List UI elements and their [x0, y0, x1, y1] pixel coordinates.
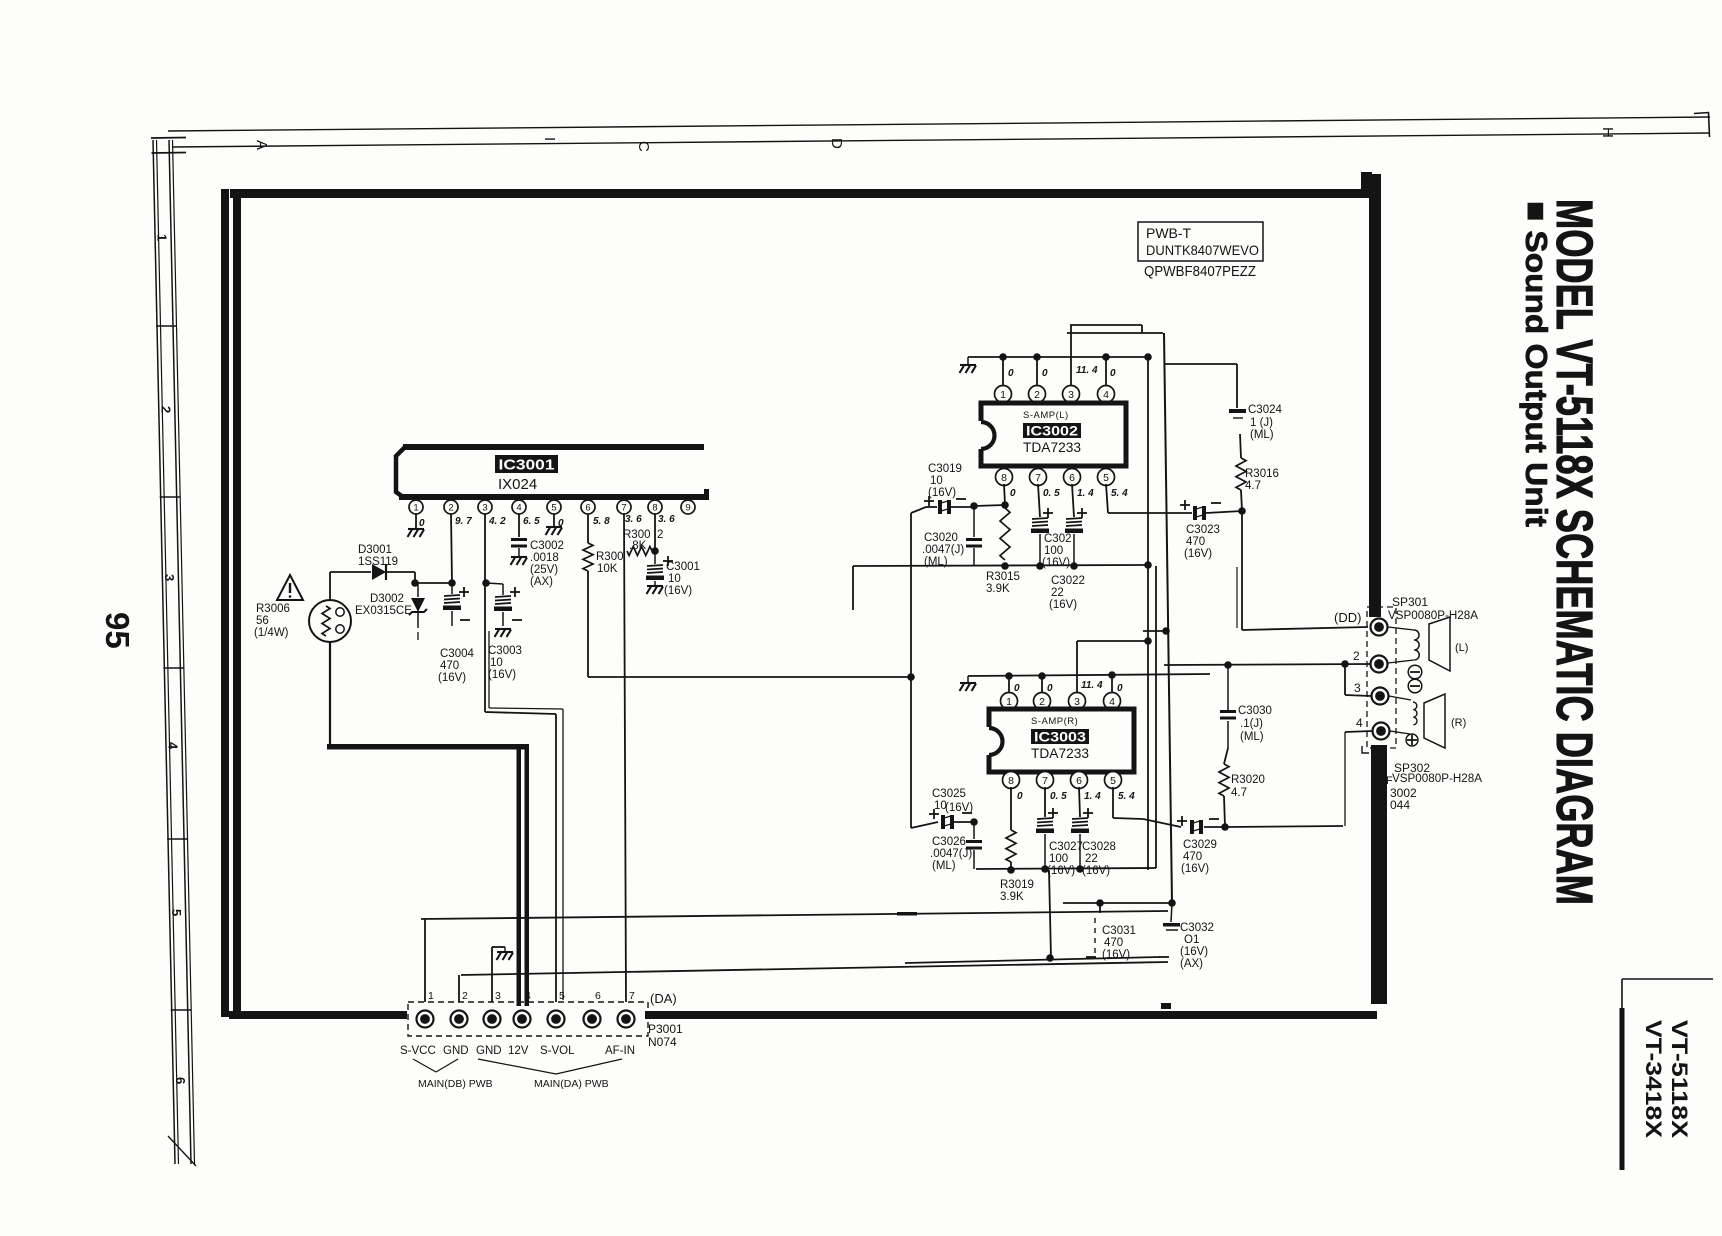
svg-text:C3002: C3002	[530, 540, 564, 552]
wire: IC3003 pin5 output	[1112, 787, 1114, 818]
svg-text:C3029: C3029	[1183, 839, 1217, 851]
IC3002 pin 8	[996, 469, 1013, 486]
svg-text:4: 4	[1103, 389, 1109, 401]
svg-text:5. 8: 5. 8	[593, 516, 610, 527]
svg-text:10: 10	[490, 657, 503, 669]
svg-text:C3032: C3032	[1180, 922, 1214, 934]
schematic frame: bottom edge left part	[229, 1011, 407, 1019]
svg-text:1SS119: 1SS119	[358, 556, 398, 568]
svg-text:SP301: SP301	[1392, 595, 1428, 609]
wire: IC3001 pin7 down to connector pin7 (AF-IN)	[624, 514, 626, 1002]
svg-text:6: 6	[585, 502, 590, 513]
svg-text:H: H	[1599, 127, 1616, 138]
svg-text:470: 470	[1104, 937, 1123, 949]
IC3001 label	[495, 455, 558, 473]
wire: R3006 top to D3001	[329, 572, 331, 600]
svg-text:VT-5118X: VT-5118X	[1667, 1020, 1692, 1138]
svg-text:C3027: C3027	[1049, 841, 1083, 853]
svg-text:1: 1	[413, 502, 418, 513]
svg-text:0: 0	[1110, 368, 1116, 379]
svg-text:I: I	[541, 137, 558, 141]
svg-text:R3006: R3006	[256, 603, 290, 615]
svg-text:2: 2	[1353, 649, 1360, 663]
capacitor C3032	[1171, 903, 1172, 922]
svg-text:3: 3	[495, 990, 501, 1002]
IC3002 pin 7	[1030, 469, 1047, 486]
speaker R coil	[1389, 696, 1411, 700]
ground below C3002	[511, 557, 528, 565]
svg-text:1 (J): 1 (J)	[1250, 417, 1273, 429]
svg-text:5: 5	[169, 909, 184, 916]
fusible resistor R3006 (circle)	[309, 600, 351, 642]
connector P3001 pin 2	[451, 1011, 468, 1028]
IC3003 pin 2	[1034, 693, 1051, 710]
svg-text:.1(J): .1(J)	[1240, 718, 1263, 730]
second gnd bus segment	[905, 957, 1160, 963]
vertical rail VC (11.4V)	[1164, 333, 1172, 903]
schematic frame: top edge	[230, 189, 1369, 198]
IC3003 ground (top bus)	[967, 676, 969, 682]
svg-text:D: D	[828, 138, 845, 149]
connector P3001 pin 3	[484, 1011, 501, 1028]
svg-text:(AX): (AX)	[1180, 958, 1203, 970]
svg-text:(16V): (16V)	[488, 669, 516, 681]
svg-text:470: 470	[440, 660, 459, 672]
svg-text:5: 5	[551, 502, 556, 513]
svg-text:5. 4: 5. 4	[1118, 791, 1135, 802]
ground below C3001	[647, 586, 664, 594]
svg-text:5: 5	[559, 990, 565, 1002]
svg-text:(16V): (16V)	[945, 802, 973, 814]
svg-text:GND: GND	[443, 1045, 469, 1057]
IC3001 pin 6	[581, 500, 595, 514]
wire: IC3003 area down-link	[1049, 870, 1051, 958]
resistor R3003 10K at IC3001 pin6	[587, 514, 589, 543]
junction D3001/D3002	[411, 579, 419, 587]
wire: pin6 resistor down and right to audio node	[587, 571, 589, 677]
svg-text:C3031: C3031	[1102, 925, 1136, 937]
svg-text:7: 7	[629, 990, 635, 1002]
svg-text:3.9K: 3.9K	[1000, 891, 1024, 903]
capacitor C3027	[1044, 787, 1046, 817]
audio junction vertical (input node)	[910, 513, 912, 828]
svg-text:A: A	[253, 140, 270, 150]
IC3003 top pin stems	[1008, 676, 1010, 694]
GND bus (sloped)	[461, 962, 1168, 975]
svg-text:1: 1	[1000, 389, 1006, 401]
svg-text:5: 5	[1103, 472, 1109, 484]
svg-text:.0018: .0018	[530, 552, 559, 564]
junction C3030 on pin2 wire	[1224, 661, 1232, 669]
IC3002 pin 2	[1029, 386, 1046, 403]
IC3001 pin 9	[681, 500, 695, 514]
svg-text:11. 4: 11. 4	[1076, 365, 1098, 376]
svg-text:8: 8	[1008, 775, 1014, 787]
IC3003 pin 3	[1069, 693, 1086, 710]
svg-text:N074: N074	[648, 1035, 677, 1049]
svg-text:7: 7	[1035, 472, 1041, 484]
svg-text:(16V): (16V)	[1180, 946, 1208, 958]
IC3002 bottom bus	[853, 565, 1148, 566]
svg-text:R3019: R3019	[1000, 879, 1034, 891]
svg-text:10K: 10K	[597, 563, 618, 575]
wire: riser to connector pin2	[458, 975, 460, 1002]
svg-text:4: 4	[1109, 696, 1115, 708]
svg-text:GND: GND	[476, 1045, 502, 1057]
speaker connector pin 2	[1371, 656, 1388, 673]
svg-text:C: C	[635, 141, 652, 152]
wire: IC3001 pin1 to ground	[415, 514, 417, 528]
speaker connector pin 3	[1372, 688, 1389, 705]
svg-text:1. 4: 1. 4	[1084, 791, 1101, 802]
svg-text:22: 22	[1051, 587, 1064, 599]
wire: IC3001 pin5 to ground	[553, 514, 555, 526]
svg-text:DUNTK8407WEVO: DUNTK8407WEVO	[1146, 242, 1259, 258]
svg-text:(DD): (DD)	[1334, 610, 1361, 625]
capacitor C3028	[1079, 787, 1080, 817]
svg-text:470: 470	[1183, 851, 1202, 863]
IC3001 pin 4	[512, 500, 526, 514]
capacitor C3020	[973, 506, 975, 537]
svg-text:(16V): (16V)	[928, 487, 956, 499]
svg-text:2: 2	[1039, 696, 1045, 708]
svg-text:0: 0	[1014, 683, 1020, 694]
svg-text:7: 7	[1042, 775, 1048, 787]
capacitor C3001	[654, 551, 656, 564]
speaker L coil	[1388, 627, 1414, 630]
PWB-T label box	[1138, 222, 1263, 261]
ground at IC3001 pin1	[408, 529, 425, 537]
top border double line with grid letters	[168, 117, 1710, 131]
IC3003 pin 5	[1105, 772, 1122, 789]
svg-text:4: 4	[525, 990, 531, 1002]
svg-text:.8K: .8K	[629, 540, 647, 552]
svg-text:VSP0080P-H28A: VSP0080P-H28A	[1388, 610, 1478, 622]
svg-text:R300: R300	[596, 551, 624, 563]
svg-text:P3001: P3001	[648, 1022, 683, 1036]
svg-text:4: 4	[1356, 716, 1363, 730]
svg-text:6: 6	[1069, 472, 1075, 484]
svg-text:(ML): (ML)	[932, 860, 956, 872]
junction C3025/C3026	[970, 818, 978, 826]
svg-text:C3022: C3022	[1051, 575, 1085, 587]
capacitor C3024	[1229, 409, 1246, 413]
svg-text:(16V): (16V)	[1102, 949, 1130, 961]
link VA-VC	[1143, 630, 1167, 632]
connector P3001 pin 4	[514, 1011, 531, 1028]
svg-text:9. 7: 9. 7	[455, 516, 472, 527]
IC3002 pin 5	[1098, 469, 1115, 486]
svg-text:9: 9	[685, 502, 690, 513]
svg-text:3. 6: 3. 6	[658, 514, 675, 525]
svg-text:6: 6	[1076, 775, 1082, 787]
svg-text:3. 6: 3. 6	[625, 514, 642, 525]
svg-text:1. 4: 1. 4	[1077, 488, 1094, 499]
svg-text:95: 95	[99, 612, 136, 649]
IC3003 pin 1	[1001, 693, 1018, 710]
svg-text:S-VCC: S-VCC	[400, 1045, 436, 1057]
IC3003 pin 8	[1003, 772, 1020, 789]
svg-text:0: 0	[1117, 683, 1123, 694]
svg-text:D3001: D3001	[358, 544, 392, 556]
svg-text:C3001: C3001	[666, 561, 700, 573]
capacitor C3019	[911, 507, 926, 513]
capacitor C3004	[451, 583, 453, 594]
connector P3001 dashed box	[408, 1002, 648, 1036]
svg-text:4: 4	[166, 742, 181, 750]
junction C3019/C3020	[970, 502, 978, 510]
svg-text:0: 0	[1008, 368, 1014, 379]
svg-text:(16V): (16V)	[438, 672, 466, 684]
vertical rail VB	[1155, 566, 1157, 828]
svg-text:C3019: C3019	[928, 463, 962, 475]
svg-text:MAIN(DA) PWB: MAIN(DA) PWB	[534, 1078, 609, 1090]
svg-text:0: 0	[1042, 368, 1048, 379]
schematic frame: right edge upper	[1369, 174, 1381, 617]
wire: IC3002 pin3 up	[1070, 325, 1072, 387]
IC3003 top bus	[968, 674, 1210, 676]
wire: IC3002 pin5 output	[1106, 484, 1108, 513]
svg-text:11. 4: 11. 4	[1081, 680, 1103, 691]
svg-text:1: 1	[1006, 696, 1012, 708]
svg-text:(16V): (16V)	[664, 585, 692, 597]
wire: riser pin3 with ground	[491, 947, 493, 1002]
svg-text:(16V): (16V)	[1049, 599, 1077, 611]
connector P3001 pin 1	[417, 1011, 434, 1028]
svg-text:56: 56	[256, 615, 269, 627]
IC3001 block	[403, 444, 704, 450]
svg-text:0: 0	[1047, 683, 1053, 694]
svg-text:0: 0	[419, 518, 425, 529]
IC3001 pin 8	[648, 500, 662, 514]
svg-text:C3030: C3030	[1238, 705, 1272, 717]
polarity circles	[1408, 665, 1422, 679]
svg-text:VT-3418X: VT-3418X	[1641, 1020, 1666, 1138]
IC3003 pin 4	[1104, 693, 1121, 710]
svg-text:100: 100	[1049, 853, 1068, 865]
svg-text:10: 10	[668, 573, 681, 585]
capacitor C3021 100uF at IC3002 pin7	[1038, 484, 1040, 517]
svg-text:100: 100	[1044, 545, 1063, 557]
capacitor C3029	[1190, 820, 1203, 834]
svg-text:(DA): (DA)	[650, 991, 677, 1006]
svg-text:R3016: R3016	[1245, 468, 1279, 480]
svg-text:(L): (L)	[1455, 642, 1468, 654]
title MODEL VT-5118X SCHEMATIC DIAGRAM (rotated)	[1546, 199, 1603, 905]
svg-text:(16V): (16V)	[1082, 865, 1110, 877]
IC3003 block	[989, 709, 1134, 772]
svg-text:10: 10	[930, 475, 943, 487]
svg-text:.0047(J): .0047(J)	[930, 848, 972, 860]
IC3003 bottom bus	[976, 868, 1156, 869]
junction C3023/R3016	[1238, 507, 1246, 515]
svg-text:2: 2	[657, 529, 663, 541]
MAIN(DA) PWB bracket	[478, 1059, 556, 1074]
speaker connector pin 4	[1373, 723, 1390, 740]
small mark near bottom edge	[1161, 1003, 1171, 1009]
svg-text:R3020: R3020	[1231, 774, 1265, 786]
wire: riser to connector pin1	[424, 919, 426, 1002]
svg-text:IX024: IX024	[498, 476, 537, 493]
svg-text:3: 3	[162, 574, 177, 581]
svg-text:C302: C302	[1044, 533, 1072, 545]
svg-text:TDA7233: TDA7233	[1023, 439, 1081, 455]
svg-text:C3026: C3026	[932, 836, 966, 848]
connector P3001 pin 6	[584, 1011, 601, 1028]
ruler top end ticks	[151, 137, 186, 140]
subtitle Sound Output Unit (rotated)	[1519, 201, 1554, 527]
capacitor C3031 (dashed lead)	[1094, 918, 1096, 956]
svg-text:MAIN(DB) PWB: MAIN(DB) PWB	[418, 1078, 493, 1090]
IC3002 pin 1	[995, 386, 1012, 403]
svg-text:QPWBF8407PEZZ: QPWBF8407PEZZ	[1144, 264, 1256, 280]
svg-text:044: 044	[1390, 798, 1410, 812]
capacitor C3002	[518, 514, 520, 537]
svg-text:IC3003: IC3003	[1034, 729, 1086, 745]
svg-text:470: 470	[1186, 536, 1205, 548]
capacitor C3003	[486, 583, 503, 584]
capacitor C3025	[911, 822, 938, 828]
wire: IC3001 pin2 down	[451, 514, 452, 583]
svg-text:C3023: C3023	[1186, 524, 1220, 536]
bus overlap mark	[897, 912, 917, 916]
svg-text:0. 5: 0. 5	[1043, 488, 1060, 499]
capacitor C3022 at IC3002 pin6	[1072, 484, 1074, 517]
svg-text:3: 3	[1068, 389, 1074, 401]
speaker connector dashed box	[1367, 607, 1396, 748]
resistor R3002 .8K between pin7 and pin8	[627, 547, 652, 556]
svg-text:22: 22	[1085, 853, 1098, 865]
svg-text:(16V): (16V)	[1184, 548, 1212, 560]
svg-text:0: 0	[1017, 791, 1023, 802]
schematic frame: right edge lower	[1371, 745, 1387, 1004]
svg-text:6: 6	[173, 1077, 188, 1084]
junction pin3/C3003	[482, 579, 490, 587]
schematic frame: bottom edge right part	[645, 1011, 1377, 1019]
IC3002 block	[981, 403, 1126, 466]
svg-text:2: 2	[158, 406, 173, 413]
junction R3002/pin8	[651, 547, 659, 555]
svg-text:R3015: R3015	[986, 571, 1020, 583]
svg-text:(25V): (25V)	[530, 564, 558, 576]
ground below C3003	[495, 629, 512, 637]
svg-text:(ML): (ML)	[1250, 429, 1274, 441]
IC3003 pin 6	[1071, 772, 1088, 789]
svg-text:7: 7	[621, 502, 626, 513]
schematic frame: left edge (double)	[221, 189, 229, 1017]
svg-text:8: 8	[652, 502, 657, 513]
svg-text:C3025: C3025	[932, 788, 966, 800]
IC3001 pin 5	[547, 500, 561, 514]
svg-text:2: 2	[1034, 389, 1040, 401]
extra vertical near pin5	[562, 913, 564, 1000]
wire: to speaker pin3	[1344, 664, 1346, 695]
svg-text:AF-IN: AF-IN	[605, 1045, 635, 1057]
svg-text:PWB-T: PWB-T	[1146, 225, 1192, 241]
resistor R3019 3.9K	[1010, 787, 1012, 830]
zener diode D3002 EX0315CE	[417, 583, 419, 597]
svg-text:6: 6	[595, 990, 601, 1002]
supply to IC3003 pin3	[1076, 641, 1078, 694]
thick 12V trunk to connector pin4	[327, 744, 527, 750]
wire: R3006 bottom down to 12V trunk	[329, 642, 331, 745]
svg-text:IC3001: IC3001	[499, 457, 555, 474]
svg-text:(16V): (16V)	[1042, 557, 1070, 569]
svg-text:1: 1	[155, 234, 170, 241]
svg-text:(R): (R)	[1451, 717, 1466, 729]
svg-text:C3024: C3024	[1248, 404, 1282, 416]
svg-text:C3028: C3028	[1082, 841, 1116, 853]
wire: R channel to speaker pin4	[1225, 826, 1343, 827]
warning triangle	[277, 575, 303, 600]
IC3001 pin 1	[409, 500, 423, 514]
IC3002 top supply/ground bus	[968, 356, 1148, 358]
svg-text:4: 4	[516, 502, 521, 513]
wire: IC3001 pin8 down	[654, 514, 656, 551]
IC3002 top pin stems	[1002, 357, 1004, 387]
connector P3001 pin 7	[618, 1011, 635, 1028]
svg-text:5. 4: 5. 4	[1111, 488, 1128, 499]
svg-text:TDA7233: TDA7233	[1031, 745, 1089, 761]
svg-text:O1: O1	[1184, 934, 1199, 946]
S-VCC bus	[421, 911, 1168, 919]
supply lines above IC3002	[1070, 324, 1142, 326]
wire: IC3001 pin3 down to S-VOL line	[484, 514, 486, 712]
connector P3001 pin 5	[548, 1011, 565, 1028]
speaker R cone	[1424, 694, 1445, 748]
svg-text:(AX): (AX)	[530, 576, 553, 588]
svg-text:VSP0080P-H28A: VSP0080P-H28A	[1392, 773, 1482, 785]
svg-text:4. 2: 4. 2	[488, 516, 506, 527]
IC3001 pin 2	[444, 500, 458, 514]
svg-text:3: 3	[1074, 696, 1080, 708]
svg-text:D3002: D3002	[370, 593, 404, 605]
frame top-right notch	[1361, 172, 1372, 198]
svg-text:0. 5: 0. 5	[1050, 791, 1067, 802]
junction pin2/C3004/D3001 line	[448, 579, 456, 587]
svg-text:.0047(J): .0047(J)	[922, 544, 964, 556]
svg-text:5: 5	[1110, 775, 1116, 787]
IC3001 pin 7	[617, 500, 631, 514]
svg-text:C3020: C3020	[924, 532, 958, 544]
svg-text:3: 3	[1354, 681, 1361, 695]
svg-text:12V: 12V	[508, 1045, 529, 1057]
svg-text:S-AMP(L): S-AMP(L)	[1023, 410, 1069, 421]
junction C3029/R3020	[1221, 823, 1229, 831]
junction audio input	[907, 673, 915, 681]
diode D3001 1SS119	[372, 564, 386, 580]
capacitor C3030	[1227, 721, 1229, 748]
resistor R3016 4.7	[1241, 490, 1242, 511]
svg-text:IC3002: IC3002	[1026, 423, 1078, 439]
wire: C3023 junction down to speaker pin1	[1241, 511, 1243, 630]
link bus y903	[1063, 902, 1172, 904]
page ruler strip (left edge)	[153, 140, 175, 1164]
IC3001 pin 3	[478, 500, 492, 514]
IC3003 pin 7	[1037, 772, 1054, 789]
bottom-right corner L mark	[1622, 978, 1713, 980]
svg-text:6. 5: 6. 5	[523, 516, 540, 527]
wire: L channel return to speaker pin2	[1164, 664, 1371, 665]
svg-text:(ML): (ML)	[1240, 731, 1264, 743]
svg-text:8: 8	[1001, 472, 1007, 484]
vertical rail VA	[1147, 357, 1149, 870]
svg-text:2: 2	[448, 502, 453, 513]
svg-text:4.7: 4.7	[1245, 480, 1261, 492]
junction pin8/R3015	[1001, 501, 1009, 509]
svg-text:4.7: 4.7	[1231, 787, 1247, 799]
svg-text:C3003: C3003	[488, 645, 522, 657]
